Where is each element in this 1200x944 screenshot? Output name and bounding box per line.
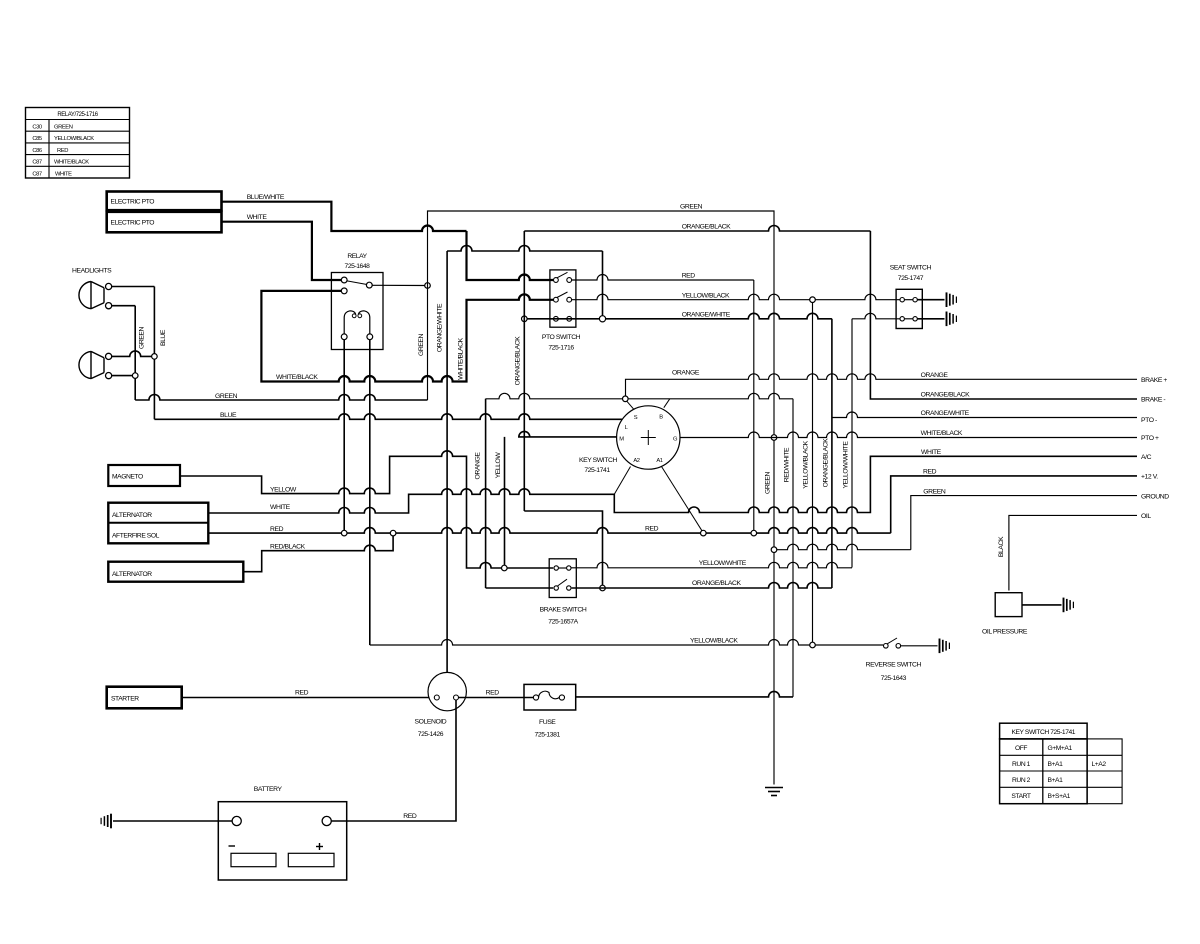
chassis ground (seat switch row1) xyxy=(947,292,957,307)
label GREEN (top run) xyxy=(680,204,703,211)
label YELLOW/BLACK (bottom run) xyxy=(690,638,738,645)
wire seat switch row2 to ground xyxy=(917,318,944,320)
svg-text:WHITE/BLACK: WHITE/BLACK xyxy=(276,374,318,381)
fuse pin a xyxy=(533,695,538,700)
svg-text:GREEN: GREEN xyxy=(923,488,946,495)
headlight 2 terminal a xyxy=(106,353,112,359)
wire ORANGE/BLACK: brake switch to clutch riser xyxy=(572,583,832,589)
label PTO SWITCH 725-1716 xyxy=(542,334,581,351)
svg-text:WHITE: WHITE xyxy=(921,449,942,456)
svg-text:B+A1: B+A1 xyxy=(1048,761,1064,768)
svg-text:C85: C85 xyxy=(32,136,42,142)
svg-text:C30: C30 xyxy=(32,125,42,131)
svg-text:ELECTRIC PTO: ELECTRIC PTO xyxy=(111,220,155,227)
svg-text:MAGNETO: MAGNETO xyxy=(112,474,143,481)
wire seat switch row1 to ground xyxy=(917,299,944,301)
label GREEN (right) xyxy=(923,488,946,495)
wire OIL feeder xyxy=(1009,515,1137,590)
label WHITE/BLACK (column, rotated) xyxy=(458,337,465,379)
svg-text:ORANGE/BLACK: ORANGE/BLACK xyxy=(682,224,731,231)
svg-text:RED: RED xyxy=(295,690,309,697)
junction headlight2-GREEN xyxy=(132,373,138,379)
junction GREEN-keyswitch G line xyxy=(771,435,777,441)
connector STARTER xyxy=(107,687,182,709)
svg-text:GREEN: GREEN xyxy=(418,333,425,356)
svg-text:GREEN: GREEN xyxy=(765,471,772,494)
label BLUE/WHITE xyxy=(247,194,285,201)
svg-text:A/C: A/C xyxy=(1141,454,1152,461)
svg-text:KEY SWITCH 725-1741: KEY SWITCH 725-1741 xyxy=(1011,729,1075,736)
solenoid pin a xyxy=(434,695,439,700)
wire ORANGE/WHITE to seat row2 xyxy=(852,313,900,319)
svg-text:YELLOW: YELLOW xyxy=(495,452,502,479)
solenoid 725-1436 body xyxy=(428,672,466,710)
label BLUE (rotated, headlight column) xyxy=(160,329,167,346)
wire BLUE/WHITE vertical drop and run to PTO switch xyxy=(467,231,554,280)
svg-text:SOLENOID: SOLENOID xyxy=(415,718,447,725)
label GREEN (rotated, headlight column) xyxy=(139,326,146,349)
wire RED: PTO switch to RED trunk xyxy=(572,275,754,531)
wire BLUE column xyxy=(153,287,155,420)
PTO pin 2 xyxy=(567,278,572,283)
brake pins row2 xyxy=(554,586,571,590)
PTO pin 1 xyxy=(554,278,559,283)
battery terminal + xyxy=(322,816,331,825)
fuse element xyxy=(539,691,560,699)
svg-text:BATTERY: BATTERY xyxy=(254,786,283,793)
svg-text:725-1716: 725-1716 xyxy=(548,344,574,351)
label YELLOW/WHITE (run) xyxy=(699,560,747,567)
label A/C xyxy=(1141,454,1152,461)
svg-text:PTO +: PTO + xyxy=(1141,435,1159,442)
label YELLOW/BLACK (PTO run) xyxy=(682,292,730,299)
key switch A2 diagonal xyxy=(614,467,630,495)
label BRAKE SWITCH 725-1657A xyxy=(540,607,587,626)
label PTO - xyxy=(1141,417,1157,424)
wire ORANGE/WHITE: PTO switch row 3 xyxy=(527,313,832,588)
svg-text:RED: RED xyxy=(645,526,659,533)
svg-text:725-1426: 725-1426 xyxy=(418,731,444,738)
wire ORANGE/BLACK riser to BRAKE- (column crossings drawn in top run) xyxy=(0,0,1,1)
svg-text:C86: C86 xyxy=(32,148,42,154)
wire GREEN riser and top run xyxy=(428,211,775,785)
earth ground (centre bottom) xyxy=(765,788,783,796)
wire RED: starter to solenoid xyxy=(182,697,435,699)
wire ORANGE/BLACK: clutch column xyxy=(523,231,525,511)
svg-text:RED: RED xyxy=(270,526,284,533)
wire ORANGE/BLACK top run to BRAKE- xyxy=(524,226,1137,400)
oil pressure sender body xyxy=(995,593,1022,617)
wire WHITE/BLACK: key switch G to PTO+ xyxy=(680,432,1137,438)
label WHITE/BLACK (right) xyxy=(921,430,963,437)
relay NC pin 87a xyxy=(341,288,347,294)
svg-text:BLUE: BLUE xyxy=(160,329,167,346)
label ORANGE/BLACK (right) xyxy=(921,392,970,399)
svg-text:RELAY/725-1716: RELAY/725-1716 xyxy=(57,112,98,118)
svg-text:REVERSE SWITCH: REVERSE SWITCH xyxy=(866,662,922,669)
label WHITE (right) xyxy=(921,449,942,456)
junction YELLOW/BLACK column-bottom xyxy=(810,642,816,648)
seat switch 725-1747 body xyxy=(896,289,922,328)
label ORANGE/BLACK (rotated column) xyxy=(823,438,830,487)
svg-text:YELLOW/WHITE: YELLOW/WHITE xyxy=(699,560,747,567)
fuse 725-1381 body xyxy=(524,684,576,710)
connector table RELAY/725-1716 xyxy=(26,108,130,179)
label +12 V. xyxy=(1141,474,1158,481)
svg-text:FUSE: FUSE xyxy=(539,719,556,726)
key switch position table header xyxy=(1000,723,1088,739)
key switch 725-1741 body xyxy=(617,406,680,469)
headlight 2 terminal b xyxy=(106,373,112,379)
label SOLENOID 725-1436 xyxy=(415,718,447,737)
label BATTERY xyxy=(254,786,283,793)
svg-text:BRAKE -: BRAKE - xyxy=(1141,397,1165,404)
junction GREEN-ground run xyxy=(771,547,777,553)
wire YELLOW M column xyxy=(504,437,506,565)
relay 725-1648 body xyxy=(331,253,383,350)
wire YELLOW/WHITE column xyxy=(851,319,853,568)
label YELLOW/BLACK (rotated column) xyxy=(803,440,810,488)
label YELLOW/WHITE (rotated column) xyxy=(843,441,850,489)
chassis ground (reverse switch) xyxy=(940,639,950,654)
label WHITE/BLACK (relay) xyxy=(276,374,318,381)
label GREEN (headlight run) xyxy=(215,393,238,400)
label SEAT SWITCH 725-1747 xyxy=(890,265,932,282)
wire ORANGE (S column) to brake row2 xyxy=(486,587,554,589)
seat switch pins row2 xyxy=(900,317,917,321)
svg-text:RED/BLACK: RED/BLACK xyxy=(270,543,306,550)
junction S terminal xyxy=(623,396,629,402)
svg-text:GROUND: GROUND xyxy=(1141,494,1169,501)
connector ELECTRIC PTO (clutch feed 2) xyxy=(107,212,222,233)
PTO switch 725-1716 body xyxy=(550,270,576,327)
brake pins row1 xyxy=(554,566,571,570)
battery body xyxy=(218,802,346,880)
wire headlight2 to BLUE junction xyxy=(112,351,152,356)
junction relay-GREEN xyxy=(425,283,431,289)
svg-text:YELLOW/BLACK: YELLOW/BLACK xyxy=(682,292,730,299)
svg-text:STARTER: STARTER xyxy=(111,696,139,703)
svg-text:RELAY: RELAY xyxy=(347,253,367,260)
svg-text:S: S xyxy=(634,415,638,421)
connector MAGNETO xyxy=(108,465,180,486)
wire relay coil pin 85 column xyxy=(343,340,345,531)
svg-text:RED/WHITE: RED/WHITE xyxy=(784,447,791,482)
svg-text:+12 V.: +12 V. xyxy=(1141,474,1158,481)
battery cell plate 2 xyxy=(288,853,334,866)
junction YELLOW-M column xyxy=(502,565,508,571)
svg-text:WHITE: WHITE xyxy=(270,504,291,511)
label RED (afterfire lead) xyxy=(270,526,284,533)
label GREEN (rotated, centre column) xyxy=(765,471,772,494)
chassis ground (oil pressure) xyxy=(1064,598,1074,613)
svg-text:RED: RED xyxy=(403,813,417,820)
label RED/WHITE (rotated column) xyxy=(784,447,791,482)
wire reverse switch to ground xyxy=(901,645,938,647)
wire YELLOW/BLACK: PTO switch to seat switch xyxy=(572,294,900,300)
brake switch arm xyxy=(558,579,568,586)
headlight 1 terminal a xyxy=(106,283,112,289)
key switch table row OFF xyxy=(1015,745,1073,752)
wire ORANGE (S drop column) xyxy=(485,399,487,588)
svg-text:SEAT SWITCH: SEAT SWITCH xyxy=(890,265,932,272)
wire YELLOW/WHITE: brake switch to column xyxy=(571,562,852,568)
svg-text:ORANGE/BLACK: ORANGE/BLACK xyxy=(921,392,970,399)
svg-text:A2: A2 xyxy=(633,458,639,464)
reverse switch pin a xyxy=(884,644,889,649)
svg-text:YELLOW: YELLOW xyxy=(270,486,297,493)
svg-text:ALTERNATOR: ALTERNATOR xyxy=(112,571,152,578)
svg-text:ORANGE/BLACK: ORANGE/BLACK xyxy=(515,336,522,385)
wire RED/BLACK: alternator to RED trunk xyxy=(243,536,393,572)
svg-text:725-1643: 725-1643 xyxy=(881,675,907,682)
label KEY SWITCH 725-1741 xyxy=(579,457,617,474)
label BLUE (headlight run) xyxy=(220,412,237,419)
PTO pin 3 xyxy=(554,297,559,302)
svg-text:BLUE/WHITE: BLUE/WHITE xyxy=(247,194,285,201)
wire ORANGE: brake+ run xyxy=(626,374,1138,396)
key switch terminal letters xyxy=(619,415,678,465)
key switch S stub xyxy=(627,401,634,409)
junction RED-RED/BLACK riser xyxy=(390,530,396,536)
svg-text:RED: RED xyxy=(57,148,68,154)
svg-text:M: M xyxy=(619,437,624,443)
label ORANGE/WHITE (right) xyxy=(921,410,970,417)
battery terminal - xyxy=(232,816,241,825)
svg-text:RUN 2: RUN 2 xyxy=(1012,777,1031,784)
svg-text:OIL: OIL xyxy=(1141,513,1151,520)
relay common pin 30 xyxy=(341,277,347,283)
wire seat switch row1 internal xyxy=(904,299,913,301)
label RED (PTO run) xyxy=(682,273,696,280)
svg-text:B+S+A1: B+S+A1 xyxy=(1048,793,1071,800)
wire WHITE: electric PTO to relay common xyxy=(222,222,342,280)
wire YELLOW/BLACK column xyxy=(812,303,814,643)
svg-text:BLACK: BLACK xyxy=(998,536,1005,557)
svg-text:WHITE: WHITE xyxy=(55,171,72,177)
svg-text:L+A2: L+A2 xyxy=(1092,761,1107,768)
junction ORANGE/WHITE-riser xyxy=(599,316,605,322)
PTO pin 4 xyxy=(567,297,572,302)
svg-text:A1: A1 xyxy=(656,458,662,464)
connector ALTERNATOR / AFTERFIRE SOL xyxy=(108,503,208,544)
wire headlight1 to GREEN column xyxy=(112,305,136,307)
wire battery - to chassis ground xyxy=(113,820,232,822)
wire headlight2 to GREEN junction xyxy=(112,375,133,377)
chassis ground (seat switch row2) xyxy=(947,312,957,327)
svg-text:GREEN: GREEN xyxy=(139,326,146,349)
svg-text:HEADLIGHTS: HEADLIGHTS xyxy=(72,268,112,275)
headlight lamp 1 xyxy=(79,282,104,309)
connector ELECTRIC PTO (clutch feed 1) xyxy=(107,192,222,211)
label RED (battery lead) xyxy=(403,813,417,820)
reverse switch pin b xyxy=(896,644,901,649)
PTO arm row1 xyxy=(557,272,568,278)
wire WHITE/BLACK: relay 87a around to PTO switch pin 3 xyxy=(261,291,553,382)
chassis ground (battery) xyxy=(101,814,111,829)
PTO pin 6 xyxy=(567,316,572,321)
junction ORANGE/BLACK-brake run xyxy=(600,585,606,591)
key switch table row RUN2 xyxy=(1012,777,1063,784)
reverse switch arm xyxy=(887,638,897,644)
svg-text:WHITE/BLACK: WHITE/BLACK xyxy=(458,337,465,379)
key switch A1 diagonal xyxy=(662,467,703,531)
svg-text:KEY SWITCH: KEY SWITCH xyxy=(579,457,617,464)
wire RED: solenoid to fuse xyxy=(459,697,534,699)
wire oil pressure to ground xyxy=(1022,604,1062,606)
svg-text:B: B xyxy=(659,415,663,421)
svg-text:BRAKE +: BRAKE + xyxy=(1141,377,1167,384)
headlight 1 terminal b xyxy=(106,303,112,309)
key switch table row START xyxy=(1011,793,1070,800)
relay armature xyxy=(347,281,366,285)
wire YELLOW: key switch M to brake switch xyxy=(519,431,617,437)
label GROUND xyxy=(1141,494,1169,501)
svg-text:GREEN: GREEN xyxy=(215,393,238,400)
label RED (trunk, centre) xyxy=(645,526,659,533)
solenoid pin b xyxy=(454,695,459,700)
wire ORANGE/WHITE feeder from 251 run xyxy=(447,246,602,316)
label BRAKE - xyxy=(1141,397,1165,404)
svg-text:YELLOW/BLACK: YELLOW/BLACK xyxy=(690,638,738,645)
svg-text:B+A1: B+A1 xyxy=(1048,777,1064,784)
svg-text:WHITE/BLACK: WHITE/BLACK xyxy=(54,160,89,166)
relay coil pin 85 xyxy=(341,334,347,340)
key switch B stub xyxy=(664,399,670,408)
key switch position table body xyxy=(1000,739,1123,804)
relay coil xyxy=(344,311,370,334)
svg-text:WHITE: WHITE xyxy=(247,214,268,221)
wire YELLOW/BLACK: relay coil to reverse switch xyxy=(370,640,883,646)
svg-text:YELLOW/BLACK: YELLOW/BLACK xyxy=(803,440,810,488)
wire relay throw to GREEN column xyxy=(372,284,425,286)
svg-text:OIL PRESSURE: OIL PRESSURE xyxy=(982,628,1028,635)
wire headlight1 to BLUE column xyxy=(112,286,155,288)
label ORANGE (keyswitch riser, left) xyxy=(672,370,700,377)
svg-text:725-1381: 725-1381 xyxy=(535,732,561,739)
label RED (right) xyxy=(923,469,937,476)
svg-text:ELECTRIC PTO: ELECTRIC PTO xyxy=(111,199,155,206)
svg-text:ORANGE: ORANGE xyxy=(921,372,949,379)
junction RED-PTO red column xyxy=(751,530,757,536)
junction ORANGE/WHITE-ORANGE/BLACK column xyxy=(522,316,528,322)
wire RED/WHITE: key switch S/B to fuse xyxy=(486,393,794,697)
svg-text:BLUE: BLUE xyxy=(220,412,237,419)
svg-text:ALTERNATOR: ALTERNATOR xyxy=(112,512,152,519)
wire RED trunk: afterfire sol to +12V xyxy=(208,476,1137,533)
svg-text:START: START xyxy=(1011,793,1031,800)
relay throw pin 87 xyxy=(366,282,372,288)
svg-text:RUN 1: RUN 1 xyxy=(1012,761,1031,768)
svg-text:725-1648: 725-1648 xyxy=(345,263,371,270)
label ORANGE (right) xyxy=(921,372,949,379)
junction RED-A1 diagonal xyxy=(701,530,707,536)
svg-text:ORANGE/BLACK: ORANGE/BLACK xyxy=(823,438,830,487)
label RED/BLACK xyxy=(270,543,306,550)
wire relay coil pin 86 column xyxy=(369,340,371,645)
PTO arm row2 xyxy=(557,292,568,298)
wire ORANGE/BLACK link to brake run xyxy=(524,511,602,585)
seat switch pins row1 xyxy=(900,298,917,302)
wire brake row1 internal xyxy=(558,567,566,569)
label ORANGE/BLACK (rotated clutch column) xyxy=(515,336,522,385)
svg-text:GREEN: GREEN xyxy=(54,125,73,131)
svg-text:BRAKE SWITCH: BRAKE SWITCH xyxy=(540,607,587,614)
svg-text:ORANGE: ORANGE xyxy=(475,452,482,480)
label RED (solenoid to fuse) xyxy=(486,689,500,696)
wire BLUE/WHITE: electric PTO to PTO switch pin 1 xyxy=(222,202,467,231)
label YELLOW (rotated column) xyxy=(495,452,502,479)
battery + sign xyxy=(316,843,323,850)
label FUSE 725-1381 xyxy=(535,719,561,738)
label ORANGE (rotated column) xyxy=(475,452,482,480)
svg-text:GREEN: GREEN xyxy=(680,204,703,211)
svg-text:ORANGE/BLACK: ORANGE/BLACK xyxy=(692,580,741,587)
svg-text:ORANGE/WHITE: ORANGE/WHITE xyxy=(437,303,444,352)
svg-text:PTO SWITCH: PTO SWITCH xyxy=(542,334,581,341)
svg-text:G+M+A1: G+M+A1 xyxy=(1048,745,1073,752)
label BRAKE + xyxy=(1141,377,1167,384)
label OIL xyxy=(1141,513,1151,520)
svg-text:OFF: OFF xyxy=(1015,745,1027,752)
svg-text:725-1741: 725-1741 xyxy=(584,467,610,474)
label ORANGE/WHITE (PTO run) xyxy=(682,312,731,319)
svg-text:ORANGE/WHITE: ORANGE/WHITE xyxy=(921,410,970,417)
junction RED-relay coil column xyxy=(341,530,347,536)
label ORANGE/BLACK (brake run) xyxy=(692,580,741,587)
battery cell plate 1 xyxy=(231,853,276,866)
label WHITE (electric PTO) xyxy=(247,214,268,221)
svg-text:PTO -: PTO - xyxy=(1141,417,1157,424)
label BLACK (rotated) xyxy=(998,536,1005,557)
wire BLUE run to key switch L xyxy=(154,414,622,419)
svg-text:ORANGE/WHITE: ORANGE/WHITE xyxy=(682,312,731,319)
relay coil pin 86 xyxy=(367,334,373,340)
wire WHITE: alternator to key switch A2 run xyxy=(208,456,1137,513)
label RED (starter lead) xyxy=(295,690,309,697)
label WHITE (alternator lead) xyxy=(270,504,291,511)
svg-text:ORANGE: ORANGE xyxy=(672,370,700,377)
connector ALTERNATOR (lower) xyxy=(108,562,243,582)
svg-text:C87: C87 xyxy=(32,171,42,177)
svg-text:RED: RED xyxy=(486,689,500,696)
wire YELLOW: magneto to brake switch xyxy=(180,451,553,568)
junction YELLOW/BLACK column xyxy=(810,297,816,303)
svg-text:YELLOW/WHITE: YELLOW/WHITE xyxy=(843,441,850,489)
PTO pin 5 xyxy=(554,316,559,321)
label OIL PRESSURE xyxy=(982,628,1028,635)
svg-text:725-1657A: 725-1657A xyxy=(548,619,578,626)
wire seat switch row2 internal xyxy=(904,318,913,320)
key switch table row RUN1 xyxy=(1012,761,1106,768)
wire GREEN run to riser xyxy=(135,395,427,401)
wire RED: solenoid to battery + xyxy=(331,700,456,821)
wire ORANGE/WHITE column to solenoid xyxy=(446,251,448,672)
headlight lamp 2 xyxy=(79,351,104,378)
svg-text:RED: RED xyxy=(682,273,696,280)
wire ORANGE/WHITE: PTO- feeder xyxy=(832,412,1137,417)
label YELLOW (magneto lead) xyxy=(270,486,297,493)
svg-text:RED: RED xyxy=(923,469,937,476)
svg-text:725-1747: 725-1747 xyxy=(898,275,924,282)
fuse pin b xyxy=(559,695,564,700)
label ORANGE/BLACK (top run) xyxy=(682,224,731,231)
svg-text:C87: C87 xyxy=(32,160,42,166)
battery - sign xyxy=(229,845,236,847)
label REVERSE SWITCH 725-1643 xyxy=(866,662,922,682)
brake switch 725-1657A body xyxy=(549,559,576,598)
wire GREEN column (headlights) xyxy=(134,306,136,400)
